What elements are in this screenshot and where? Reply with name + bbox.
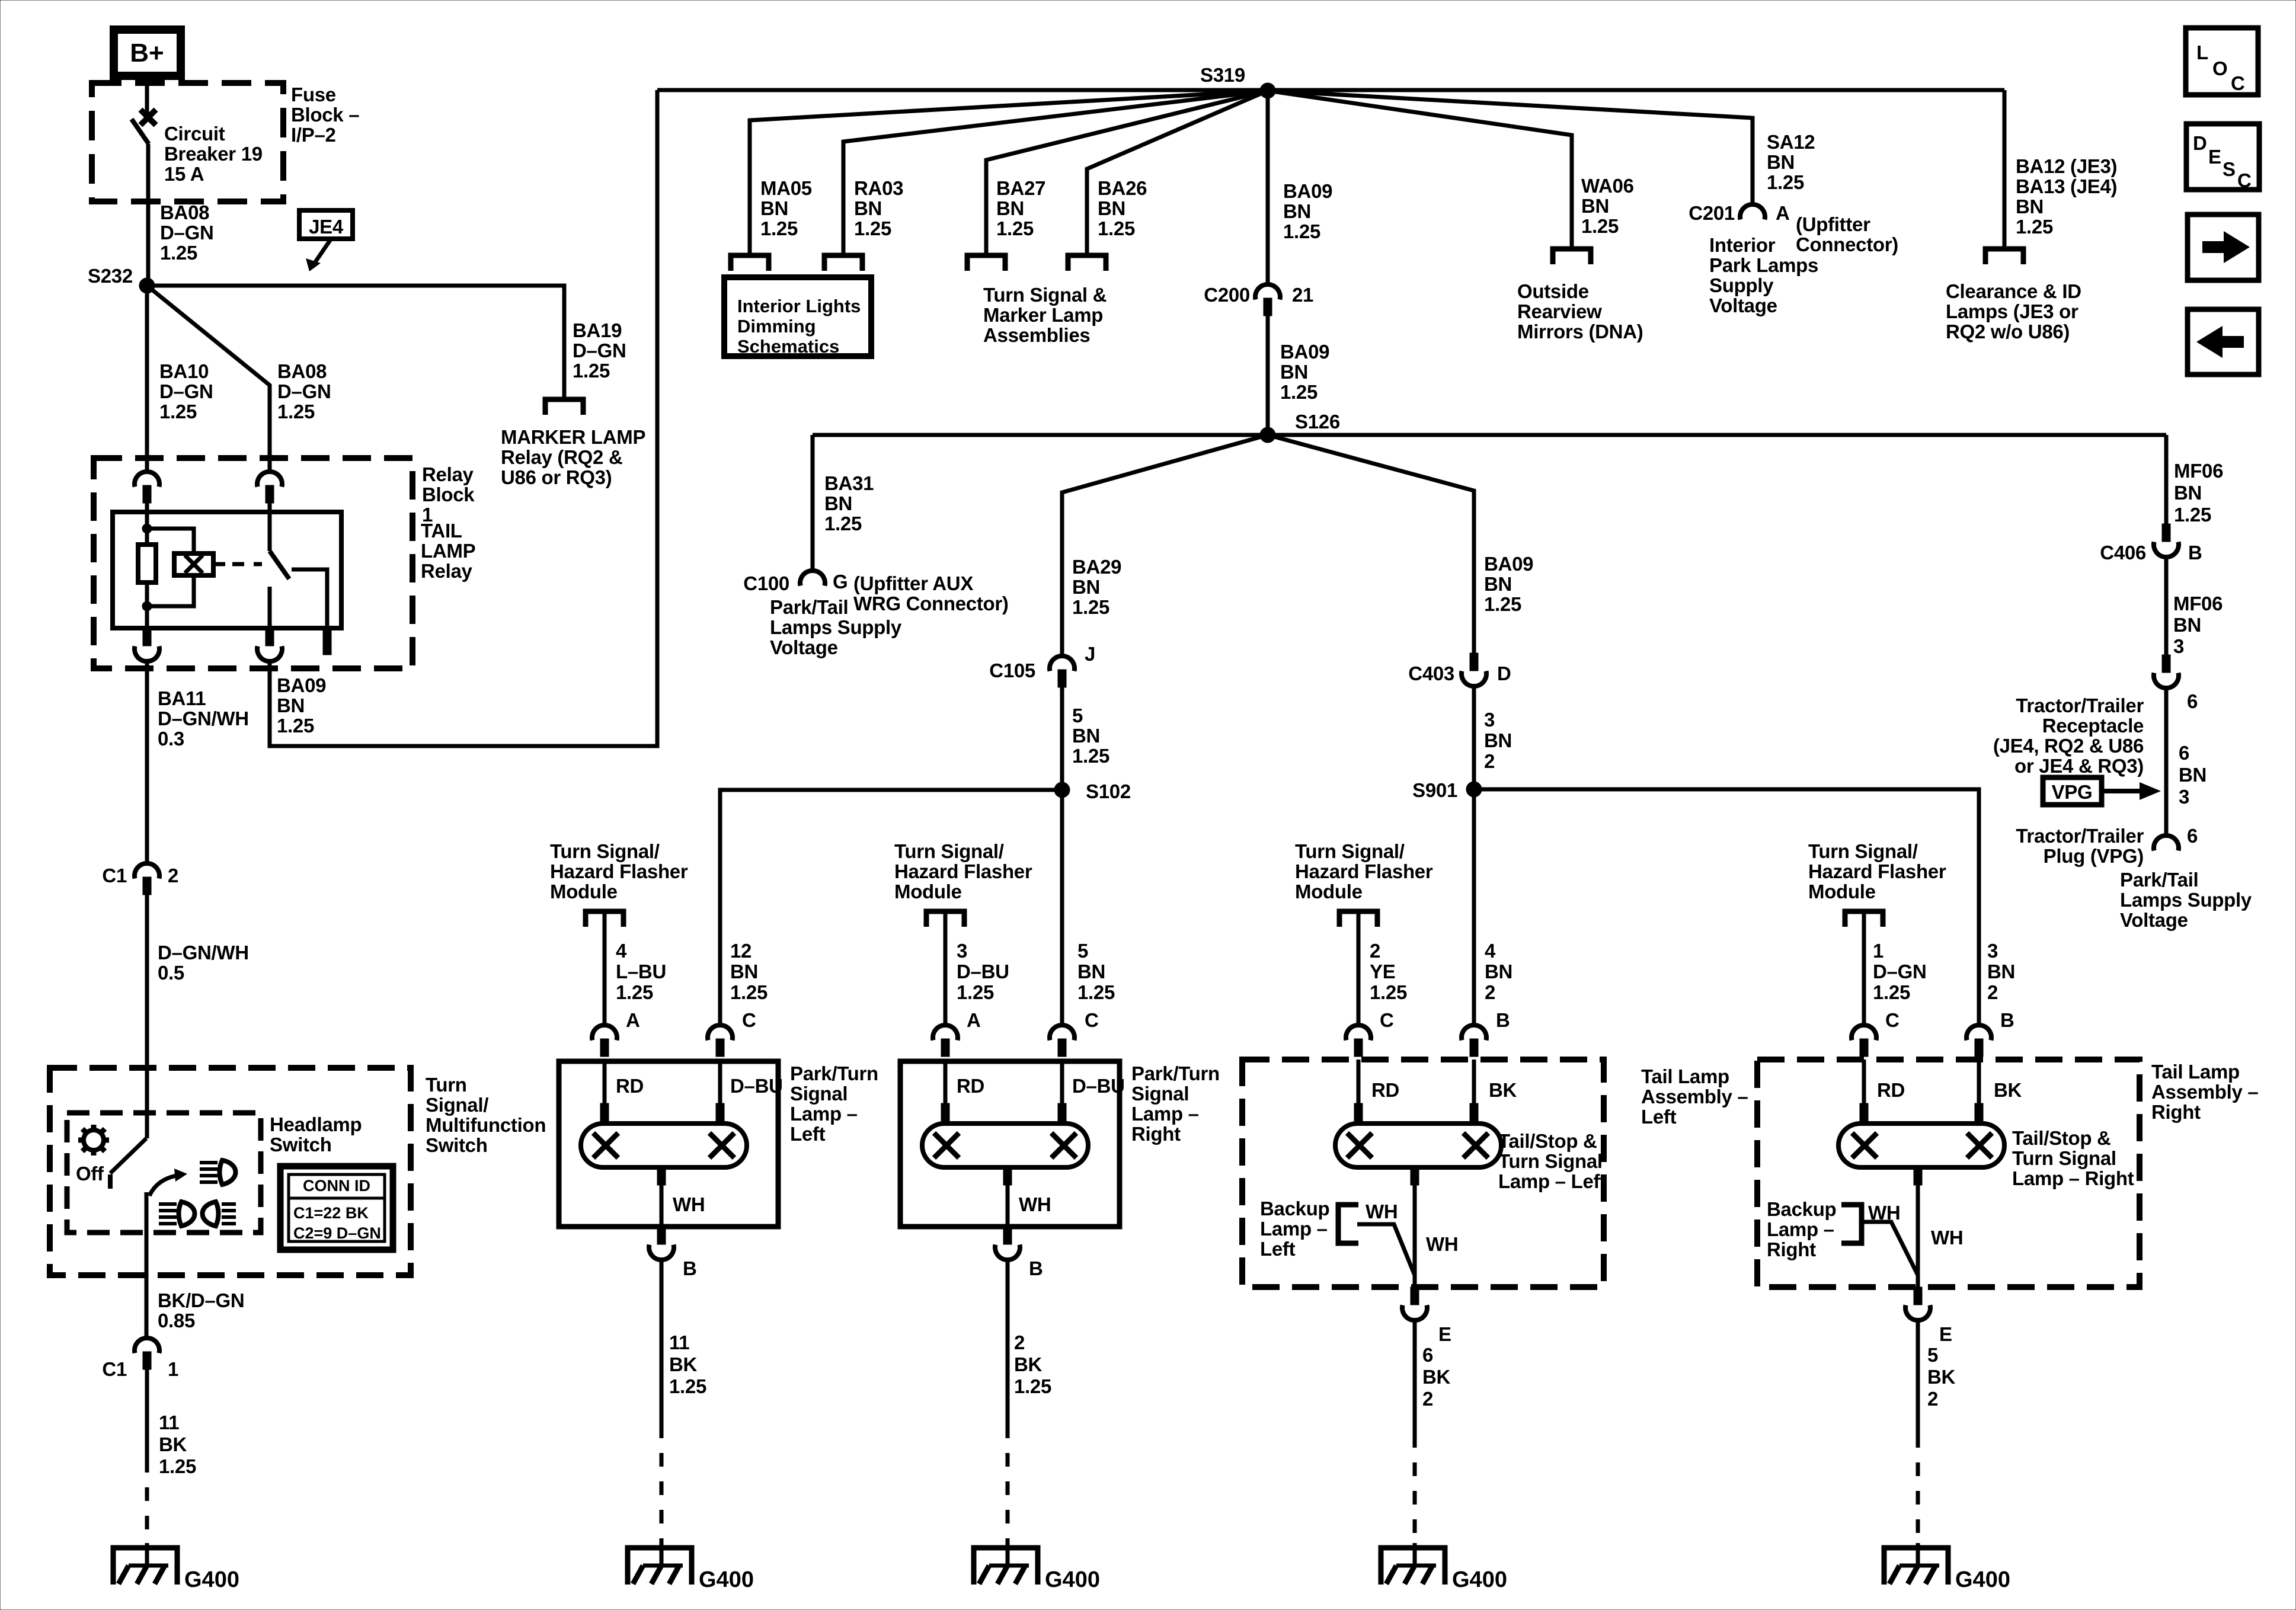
dual filament bulb (group 3) [1335, 1124, 1501, 1167]
wire 4 L-BU from module [603, 911, 607, 1025]
svg-text:C: C [2237, 169, 2252, 191]
svg-text:C1: C1 [102, 1358, 127, 1380]
relay coil box with X [174, 553, 213, 575]
svg-text:J: J [1085, 643, 1095, 665]
wire BA10 D-GN from S232 to relay [145, 286, 149, 471]
svg-text:B+: B+ [130, 39, 164, 68]
wire MF06 BN 1.25 [2164, 435, 2169, 524]
tail lamp relay outline [113, 512, 341, 628]
svg-text:2: 2 [168, 865, 178, 886]
svg-text:RD: RD [957, 1075, 984, 1097]
connector pin C park/turn lamp left [708, 1025, 733, 1041]
relay switch common wire [268, 503, 272, 551]
svg-text:S901: S901 [1412, 779, 1457, 801]
svg-text:Tractor/TrailerReceptacle(JE4,: Tractor/TrailerReceptacle(JE4, RQ2 & U86… [1993, 694, 2144, 777]
svg-text:B: B [1496, 1009, 1510, 1031]
svg-text:G400: G400 [699, 1567, 754, 1592]
connector C200 pin 21 [1255, 284, 1280, 300]
node S319 splice [1260, 83, 1275, 98]
dual filament bulb (group 4) [1838, 1124, 2004, 1167]
wire WH (group 2) [1006, 1185, 1010, 1227]
backup lamp left wire [1357, 1224, 1415, 1275]
svg-text:C403: C403 [1408, 662, 1454, 684]
svg-text:C105: C105 [989, 660, 1035, 681]
wire BA08 D-GN branch from S232 to relay [147, 286, 270, 471]
svg-text:C1: C1 [102, 865, 127, 886]
lamp lead BK (group 4) [1977, 1060, 1981, 1105]
wire 12 BN from S102 to lamp C (left) [720, 790, 1062, 1025]
dashed ground lead [145, 1459, 149, 1543]
interior lights dimming schematics box [724, 277, 871, 357]
wire 5 BN from S102 to lamp C (right) [1060, 790, 1064, 1025]
svg-text:C1=22 BK: C1=22 BK [293, 1204, 369, 1222]
svg-text:D–BU: D–BU [1072, 1075, 1125, 1097]
connector pin B tail lamp right [1966, 1025, 1991, 1041]
svg-text:D–BU: D–BU [730, 1075, 783, 1097]
svg-text:C406: C406 [2100, 542, 2146, 564]
svg-text:BK: BK [1994, 1079, 2022, 1101]
connector tractor/trailer plug pin 6 [2154, 836, 2179, 851]
VPG arrow [2102, 789, 2141, 793]
relay coil stub to mech link [213, 562, 225, 566]
off-page connector BA26 [1068, 255, 1106, 271]
svg-text:C: C [1085, 1009, 1099, 1031]
off contact tick [108, 1174, 113, 1189]
svg-text:S102: S102 [1086, 780, 1131, 802]
wire from B+ into fuse block [145, 76, 149, 114]
node S232 splice [139, 278, 155, 293]
backup lamp right stub [1841, 1205, 1862, 1243]
off-page connector to marker lamp relay [545, 399, 583, 415]
svg-text:A: A [1776, 202, 1790, 224]
svg-text:B: B [2188, 542, 2202, 564]
wire MF06 BN 3 [2164, 558, 2169, 655]
headlamp switch blade [110, 1138, 146, 1173]
connector pin C tail lamp left [1346, 1025, 1371, 1041]
bus wire through S126 [813, 433, 2166, 437]
headlamp switch dashed box [67, 1113, 261, 1233]
off-page connector clearance lamps [1985, 249, 2023, 264]
svg-text:WH: WH [673, 1193, 705, 1215]
wire 5 BK 2 (group 4) [1916, 1321, 1920, 1434]
connector C100 pin G [800, 571, 825, 586]
svg-text:WH: WH [1426, 1233, 1458, 1255]
turn signal/hazard flasher module (group 4) [1845, 911, 1883, 927]
wire MA05 branch [750, 91, 1268, 255]
svg-text:S126: S126 [1295, 411, 1340, 433]
dashed ground lead (group 3) [1413, 1434, 1417, 1543]
svg-text:A: A [967, 1009, 981, 1031]
wire 5 BN from C105 to S102 [1060, 687, 1064, 790]
ground G400 (group 1) [628, 1548, 692, 1585]
backup lamp left stub [1338, 1205, 1358, 1243]
ground G400 (switch) [113, 1548, 177, 1585]
power feed B+ [114, 30, 181, 76]
svg-text:Turn Signal &Marker LampAssemb: Turn Signal &Marker LampAssemblies [983, 284, 1107, 346]
wire BA09 BN loop from relay to S319 [270, 90, 657, 746]
previous-page arrow box [2188, 309, 2259, 375]
off-page connector MA05 [731, 255, 769, 271]
VPG box [2043, 777, 2102, 805]
connector pin B tail lamp left [1462, 1025, 1486, 1041]
turn signal/hazard flasher module (group 2) [926, 911, 964, 927]
ground G400 (group 3) [1381, 1548, 1445, 1585]
svg-text:D: D [1497, 662, 1511, 684]
LOC legend box [2186, 28, 2258, 95]
dashed ground lead (group 2) [1006, 1425, 1010, 1543]
connector C1 pin 1 [135, 1338, 159, 1353]
off-page connector WA06 [1553, 249, 1591, 264]
dual filament bulb (group 1) [581, 1124, 747, 1167]
wire BA08 D-GN from breaker to S232 [146, 144, 151, 286]
wire 3 D-BU from module [944, 911, 948, 1025]
wire BA12/BA13 clearance lamps branch [2003, 90, 2007, 249]
connector C201 pin A (upfitter) [1740, 204, 1765, 220]
relay switch output wire [268, 587, 272, 628]
connector pin E tail lamp right [1914, 1287, 1922, 1305]
connector C105 pin J [1050, 656, 1075, 671]
svg-text:C201: C201 [1689, 202, 1735, 224]
svg-text:S319: S319 [1200, 64, 1245, 86]
svg-text:Off: Off [76, 1163, 104, 1185]
dashed ground lead (group 1) [660, 1425, 664, 1543]
bulb common stub (group 4) [1914, 1167, 1922, 1185]
svg-text:BK: BK [1489, 1079, 1517, 1101]
connector pin B park/turn lamp left [657, 1227, 666, 1244]
svg-text:JE4: JE4 [309, 216, 344, 238]
svg-text:B: B [2000, 1009, 2014, 1031]
wire 11 BK 1.25 to ground [145, 1369, 149, 1459]
wire BA29 BN from S126 to C105 [1062, 435, 1268, 655]
bulb common stub (group 1) [657, 1167, 666, 1185]
park/turn signal lamp right box [900, 1061, 1120, 1227]
fuse block I/P-2 dashed box [92, 83, 283, 201]
svg-text:C200: C200 [1204, 284, 1250, 306]
wire WH (group 4) [1916, 1185, 1920, 1287]
svg-text:G400: G400 [1955, 1567, 2010, 1592]
off-page connector BA27 [967, 255, 1005, 271]
svg-text:Tail/Stop &Turn SignalLamp – L: Tail/Stop &Turn SignalLamp – Left [1498, 1130, 1606, 1192]
svg-text:C: C [742, 1009, 756, 1031]
wire 3 BN from C403 to S901 [1472, 687, 1476, 789]
wire BA27 branch [986, 91, 1268, 255]
rotary motion arrow [149, 1175, 180, 1196]
svg-text:G400: G400 [184, 1567, 239, 1592]
svg-text:A: A [626, 1009, 640, 1031]
svg-text:E: E [1438, 1323, 1451, 1345]
wire 3 BN from S901 to right tail lamp [1474, 789, 1979, 1025]
connector pin BA09 out of relay block [266, 628, 274, 646]
svg-text:B: B [683, 1257, 697, 1279]
wire SA12 branch [1268, 91, 1753, 204]
connector pin BA08 into relay block [257, 472, 282, 487]
wire 11 BK 1.25 (group 1) [660, 1260, 664, 1425]
svg-text:S: S [2223, 158, 2236, 180]
svg-text:RD: RD [616, 1075, 644, 1097]
ground G400 (group 4) [1884, 1548, 1948, 1585]
svg-text:E: E [2208, 146, 2221, 168]
park lamp icon (off position) [78, 1125, 109, 1156]
tail lamp assembly right dashed box [1757, 1060, 2140, 1287]
svg-text:6: 6 [2187, 690, 2198, 712]
lamp lead RD (group 2) [944, 1061, 948, 1105]
svg-text:RD: RD [1371, 1079, 1399, 1101]
ground G400 (group 2) [974, 1548, 1038, 1585]
svg-text:RD: RD [1877, 1079, 1905, 1101]
wire WH (group 3) [1413, 1185, 1417, 1287]
svg-text:WH: WH [1366, 1201, 1398, 1222]
wire BA31 BN to C100 [811, 435, 815, 570]
connector pin BA11 out of relay block [143, 628, 151, 646]
connector pin BA10 into relay block [135, 472, 159, 487]
wire 1 D-GN from module [1862, 911, 1866, 1025]
circuit breaker 19 contact X [140, 110, 156, 125]
circuit breaker 19 blade [132, 119, 149, 144]
lamp lead D-BU (group 1) [718, 1061, 722, 1105]
svg-text:Clearance & IDLamps (JE3 orRQ2: Clearance & IDLamps (JE3 orRQ2 w/o U86) [1946, 280, 2081, 343]
JE4 arrow [315, 239, 331, 262]
node S901 splice [1466, 782, 1482, 797]
wire WH (group 1) [660, 1185, 664, 1227]
turn signal/hazard flasher module (group 3) [1339, 911, 1377, 927]
svg-text:6: 6 [2187, 825, 2198, 847]
svg-text:VPG: VPG [2052, 781, 2093, 803]
svg-text:E: E [1939, 1323, 1952, 1345]
DESC legend box [2186, 124, 2259, 191]
wire BA09 BN from C200 to S126 [1266, 316, 1270, 435]
lamp lead BK (group 3) [1472, 1060, 1476, 1105]
connector pin E tail lamp left [1411, 1287, 1419, 1305]
svg-text:G: G [833, 571, 848, 593]
svg-text:C: C [1380, 1009, 1394, 1031]
wire 4 BN from S901 to left tail lamp [1472, 789, 1476, 1025]
relay NC contact branch [292, 569, 327, 628]
wire 2 BK 1.25 (group 2) [1006, 1260, 1010, 1425]
JE4 option box [299, 210, 353, 239]
headlamp icon (head position) [200, 1160, 236, 1185]
wire 6 BK 2 (group 3) [1413, 1321, 1417, 1434]
wire BA26 branch [1087, 91, 1268, 255]
relay block 1 dashed box [94, 458, 412, 668]
lamp lead RD (group 4) [1862, 1060, 1866, 1105]
relay resistor [138, 545, 156, 582]
svg-text:21: 21 [1292, 284, 1313, 306]
tail lamp assembly left dashed box [1242, 1060, 1604, 1287]
svg-text:WH: WH [1019, 1193, 1051, 1215]
svg-text:G400: G400 [1045, 1567, 1100, 1592]
turn signal/hazard flasher module (group 1) [586, 911, 623, 927]
wire BK/D-GN below switch [145, 1192, 149, 1337]
svg-text:G400: G400 [1452, 1567, 1507, 1592]
relay switch blade [270, 551, 289, 579]
svg-text:C2=9 D–GN: C2=9 D–GN [293, 1224, 381, 1242]
connector pin A park/turn lamp right [933, 1025, 958, 1041]
dashed ground lead (group 4) [1916, 1434, 1920, 1543]
relay junction dot bottom [142, 601, 152, 611]
relay wire resistor to output [145, 582, 149, 628]
bulb common stub (group 3) [1411, 1167, 1419, 1185]
lamp lead D-BU (group 2) [1060, 1061, 1064, 1105]
svg-text:C: C [1885, 1009, 1900, 1031]
connector C403 pin D [1470, 653, 1478, 671]
relay unused terminal stub [323, 628, 331, 655]
svg-text:B: B [1029, 1257, 1043, 1279]
connector pin A park/turn lamp left [592, 1025, 617, 1041]
off-page connector RA03 [824, 255, 862, 271]
connector pin B park/turn lamp right [1003, 1227, 1012, 1244]
main feed bus wire to S319 [657, 88, 2004, 92]
wire 2 YE from module [1357, 911, 1361, 1025]
park/turn signal lamp left box [559, 1061, 778, 1227]
wire WA06 branch [1268, 91, 1572, 249]
wire 6 BN 3 [2164, 689, 2169, 835]
svg-text:L: L [2196, 41, 2208, 63]
CONN ID table [280, 1166, 393, 1250]
headlamp icons (park+head position) [159, 1202, 195, 1226]
svg-text:O: O [2212, 57, 2227, 79]
connector pin C park/turn lamp right [1050, 1025, 1075, 1041]
svg-text:D: D [2193, 132, 2207, 154]
svg-text:1: 1 [168, 1358, 178, 1380]
relay junction dot top [142, 524, 152, 533]
backup lamp right wire [1862, 1222, 1918, 1275]
svg-text:CONN ID: CONN ID [303, 1177, 370, 1195]
svg-text:C: C [2231, 72, 2245, 94]
node S102 splice [1054, 782, 1070, 798]
connector C1 pin 2 [135, 863, 159, 879]
relay coil branch wires [147, 529, 194, 553]
relay mechanical link (dashed) [232, 562, 262, 566]
connector tractor/trailer receptacle pin 6 [2162, 655, 2170, 673]
wire BA09 BN from S319 to C200 [1266, 91, 1270, 284]
wire from S232 to BA19 branch [147, 286, 564, 399]
node S126 splice [1260, 427, 1275, 443]
next-page arrow box [2188, 215, 2259, 280]
connector C406 pin B [2162, 524, 2170, 542]
lamp lead RD (group 1) [603, 1061, 607, 1105]
lamp lead RD (group 3) [1357, 1060, 1361, 1105]
svg-text:S232: S232 [88, 265, 133, 287]
dual filament bulb (group 2) [922, 1124, 1088, 1167]
relay coil wire left [145, 503, 149, 545]
bulb common stub (group 2) [1003, 1167, 1012, 1185]
wire RA03 branch [843, 91, 1268, 255]
svg-text:C100: C100 [743, 572, 789, 594]
connector pin C tail lamp right [1851, 1025, 1876, 1041]
wire BA09 BN from S126 to C403 [1268, 435, 1474, 653]
wire D-GN/WH to headlamp switch [145, 895, 149, 1138]
wire BA11 D-GN/WH to C1 [145, 662, 149, 863]
svg-text:WH: WH [1931, 1227, 1963, 1249]
turn signal/multifunction switch dashed box [50, 1068, 411, 1275]
